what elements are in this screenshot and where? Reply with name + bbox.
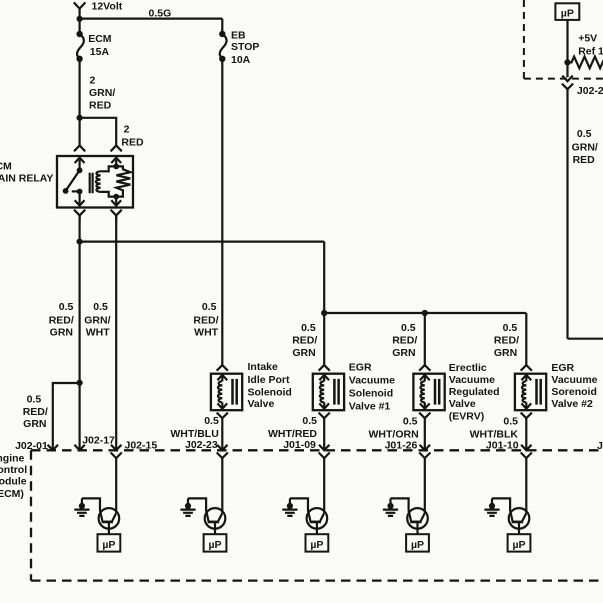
svg-text:15A: 15A [90, 46, 110, 58]
ground symbol 1 [74, 498, 89, 516]
valve pin arrow up [521, 375, 531, 380]
valve pin arrow up [420, 375, 430, 380]
svg-text:µP: µP [102, 539, 115, 551]
wire fuse to relay (column A) [78, 59, 80, 146]
svg-text:0.5: 0.5 [503, 322, 518, 334]
svg-text:RED: RED [89, 99, 112, 111]
ECM module dashed box top edge [31, 449, 603, 451]
svg-text:RED/: RED/ [193, 314, 218, 326]
connector fork above relay left pin [74, 146, 85, 152]
svg-text:Intake: Intake [248, 361, 279, 373]
svg-text:0.5: 0.5 [93, 301, 108, 313]
ECM dashed boundary top-right vertical [523, 0, 525, 79]
microprocessor uP box 2 [204, 534, 227, 551]
transistor Q1 [99, 508, 120, 534]
transistor Q4 [407, 508, 428, 534]
svg-text:RED: RED [573, 154, 596, 166]
svg-text:GRN: GRN [50, 327, 73, 339]
valve pin arrow down [420, 403, 430, 408]
connector fork below ECM line (column 2) [217, 453, 228, 514]
svg-text:RED/: RED/ [49, 314, 74, 326]
connector fork above Intake Idle Port [217, 365, 228, 371]
connector arrow into ECM at J02-17 [74, 445, 84, 451]
transistor Q5 [509, 508, 530, 534]
svg-text:Vacuume: Vacuume [449, 374, 495, 386]
svg-text:Control: Control [0, 464, 27, 476]
ground symbol 4 [383, 498, 398, 516]
relay switch contact nodes and blade [63, 167, 83, 194]
wire EVRV drop [424, 313, 426, 365]
svg-text:RED/: RED/ [392, 334, 417, 346]
solenoid valve EGR Vacuum Solenoid Valve 2 box [515, 374, 546, 411]
connector arrow into ECM at J01-26 [420, 445, 430, 451]
connector arrow into ECM at J01-10 [521, 445, 531, 451]
ground symbol 3 [282, 498, 297, 516]
valve pin arrow up [319, 375, 329, 380]
connector fork above EGR Vacuum Solenoid Valve 2 [521, 365, 532, 371]
transistor Q3 [307, 508, 328, 534]
connector fork below relay left pin [74, 210, 85, 221]
wire exits right edge [568, 338, 603, 340]
microprocessor uP box top right [555, 3, 579, 20]
svg-text:0.5: 0.5 [204, 415, 219, 427]
wire ground to transistor 4 [391, 498, 409, 511]
valve pin arrow up [217, 375, 227, 380]
connector fork below Intake Idle Port [217, 413, 228, 451]
relay pin arrow down (left) [75, 192, 85, 206]
connector arrow into ECM at J02-01 [48, 445, 58, 451]
svg-text:Regulated: Regulated [449, 386, 500, 398]
fuse ECM 15A [76, 31, 83, 62]
node 12Volt battery feed fork [74, 2, 86, 18]
svg-text:ECM: ECM [0, 160, 12, 172]
valve coil winding [525, 375, 527, 381]
svg-text:RED/: RED/ [23, 406, 48, 418]
solenoid valve Intake Idle Port box [211, 374, 242, 411]
svg-text:RED: RED [121, 137, 144, 149]
connector fork above relay right pin [111, 146, 122, 152]
svg-text:Sorenoid: Sorenoid [551, 386, 597, 398]
wire ground to transistor 2 [188, 498, 206, 511]
svg-text:+5V: +5V [578, 32, 597, 44]
svg-text:Solenoid: Solenoid [248, 387, 292, 399]
svg-text:RED/: RED/ [292, 334, 317, 346]
solenoid valve EVRV box [413, 374, 444, 411]
connector fork below EGR Vacuum Solenoid Valve 2 [521, 413, 532, 451]
svg-text:EGR: EGR [551, 362, 574, 374]
svg-text:Valve #1: Valve #1 [349, 401, 391, 413]
ECM module dashed box left edge [30, 450, 32, 580]
svg-text:0.5: 0.5 [403, 415, 418, 427]
svg-text:0.5: 0.5 [577, 128, 592, 140]
svg-text:GRN: GRN [23, 418, 46, 430]
relay pin arrow down (right) [111, 197, 121, 206]
svg-text:WHT/ORN: WHT/ORN [369, 428, 419, 440]
ground symbol 5 [484, 498, 499, 516]
svg-text:Ref 1: Ref 1 [578, 46, 603, 58]
wire bus1 drop to bus2 [323, 242, 325, 313]
svg-text:Engine: Engine [0, 452, 25, 464]
transistor Q2 [205, 508, 226, 534]
relay coil (parallel left branch) [101, 166, 117, 171]
fuse EB STOP 10A [219, 31, 226, 62]
ECM module dashed box bottom edge [31, 579, 603, 581]
svg-text:MAIN RELAY: MAIN RELAY [0, 172, 53, 184]
connector arrow at J02-2x [562, 76, 572, 82]
valve pin arrow down [217, 403, 227, 408]
wire uP to J02-2x [566, 20, 568, 77]
connector fork below EGR Vacuum Solenoid Valve 1 [319, 413, 330, 451]
svg-text:ECM: ECM [88, 33, 112, 45]
svg-text:Module: Module [0, 476, 27, 488]
svg-text:0.5G: 0.5G [149, 8, 172, 20]
svg-text:0.5: 0.5 [202, 301, 217, 313]
wire branch to J02-01 [53, 383, 80, 450]
relay armature core bars [90, 173, 93, 194]
svg-text:Erectlic: Erectlic [449, 362, 487, 374]
svg-text:Idle Port: Idle Port [248, 374, 291, 386]
solenoid valve EGR Vacuum Solenoid Valve 1 box [313, 374, 344, 411]
junction node 2-RED branch [77, 115, 83, 121]
svg-text:µP: µP [411, 539, 424, 551]
svg-text:Solenoid: Solenoid [349, 388, 393, 400]
relay coil node top [113, 164, 119, 170]
svg-text:0.5: 0.5 [401, 322, 416, 334]
svg-text:EGR: EGR [349, 362, 372, 374]
svg-text:Vacuume: Vacuume [551, 374, 597, 386]
microprocessor uP box 5 [508, 534, 531, 551]
svg-text:GRN/: GRN/ [89, 87, 115, 99]
svg-text:µP: µP [310, 539, 323, 551]
svg-text:RED/: RED/ [494, 334, 519, 346]
connector arrow into ECM at J02-15 [111, 445, 121, 451]
svg-text:(EVRV): (EVRV) [449, 410, 484, 422]
svg-text:GRN/: GRN/ [572, 142, 598, 154]
junction node bus2 left [321, 310, 327, 316]
microprocessor uP box 3 [306, 534, 329, 551]
wire bus2 horizontal [324, 312, 526, 314]
svg-text:GRN/: GRN/ [84, 314, 110, 326]
wire top horizontal 0.5G [80, 18, 223, 20]
wire ground to transistor 1 [82, 498, 100, 511]
wire branch 2 RED to relay right pin [80, 118, 117, 146]
svg-text:GRN: GRN [292, 347, 315, 359]
svg-text:(ECM): (ECM) [0, 488, 24, 500]
wire from junction down to fuse ECM [78, 19, 80, 34]
valve core bars [233, 379, 237, 405]
connector fork below ECM line (column 3) [319, 453, 330, 514]
svg-text:J02-17: J02-17 [82, 435, 115, 447]
svg-text:2: 2 [90, 75, 96, 87]
valve coil winding [221, 375, 223, 381]
svg-text:GRN: GRN [494, 347, 517, 359]
wire ground to transistor 3 [290, 498, 308, 511]
svg-text:0.5: 0.5 [301, 322, 316, 334]
svg-text:WHT/BLK: WHT/BLK [470, 428, 519, 440]
wire bus1 horizontal [80, 241, 325, 243]
junction node bus1 tap [77, 239, 83, 245]
junction node bus2 EVRV tap [422, 310, 428, 316]
valve core bars [334, 379, 338, 405]
svg-text:Valve: Valve [449, 398, 476, 410]
svg-text:0.5: 0.5 [302, 415, 317, 427]
svg-text:0.5: 0.5 [503, 415, 518, 427]
svg-text:µP: µP [208, 539, 221, 551]
relay resistor (parallel right branch) [116, 166, 130, 196]
svg-text:GRN: GRN [392, 347, 415, 359]
svg-text:WHT: WHT [86, 327, 110, 339]
connector fork below ECM line (column 5) [521, 453, 532, 514]
connector arrow into ECM at J01-09 [319, 445, 329, 451]
svg-text:10A: 10A [231, 54, 251, 66]
junction node J02-01 branch [77, 380, 83, 386]
valve coil winding [424, 375, 426, 381]
wire column B relay output down to J02-15 [115, 215, 117, 450]
relay U1 box [57, 156, 133, 208]
connector fork below ECM line (column 4) [419, 453, 430, 514]
svg-text:2: 2 [124, 124, 130, 136]
wire ground to transistor 5 [492, 498, 510, 511]
svg-text:Vacuume: Vacuume [349, 375, 395, 387]
svg-text:µP: µP [561, 7, 574, 19]
svg-text:0.5: 0.5 [59, 301, 74, 313]
junction node pull-up [564, 59, 570, 65]
wire column A relay output down to ECM [78, 215, 80, 450]
svg-text:J02-24: J02-24 [577, 85, 603, 97]
microprocessor uP box 1 [98, 534, 121, 551]
ECM dashed boundary top-right horizontal [524, 78, 603, 80]
resistor pull-up (clipped at right edge) [568, 57, 603, 69]
microprocessor uP box 4 [406, 534, 429, 551]
connector fork above EVRV [419, 365, 430, 371]
relay pin arrow up (right/coil) [111, 158, 121, 167]
wire column C EB STOP down to intake valve [221, 59, 223, 365]
connector arrow into ECM at J02-23 [217, 445, 227, 451]
valve pin arrow down [521, 403, 531, 408]
valve core bars [537, 379, 541, 405]
svg-text:WHT/RED: WHT/RED [268, 428, 317, 440]
svg-text:WHT: WHT [194, 327, 218, 339]
connector fork below ECM line (column 1) [111, 453, 122, 514]
svg-text:0.5: 0.5 [27, 393, 42, 405]
ground symbol 2 [180, 498, 195, 516]
junction node at 12Volt [77, 16, 83, 22]
svg-text:Valve: Valve [248, 398, 275, 410]
wire EGR#2 drop [525, 313, 527, 365]
wire EB STOP drop from top wire [221, 19, 223, 34]
connector fork below EVRV [419, 413, 430, 451]
connector fork below relay right pin [111, 210, 122, 221]
wire EGR#1 drop [323, 313, 325, 365]
relay coil node bottom [113, 194, 119, 200]
connector fork below J02-2x [562, 84, 573, 339]
relay pin arrow up (left) [75, 158, 85, 171]
valve coil winding [323, 375, 325, 381]
svg-text:12Volt: 12Volt [92, 0, 123, 12]
svg-text:EB: EB [231, 29, 246, 41]
svg-text:WHT/BLU: WHT/BLU [170, 428, 218, 440]
svg-text:µP: µP [512, 539, 525, 551]
svg-text:Valve #2: Valve #2 [551, 398, 593, 410]
valve pin arrow down [319, 403, 329, 408]
valve core bars [435, 379, 439, 405]
connector fork above EGR Vacuum Solenoid Valve 1 [319, 365, 330, 371]
svg-text:STOP: STOP [231, 41, 259, 53]
